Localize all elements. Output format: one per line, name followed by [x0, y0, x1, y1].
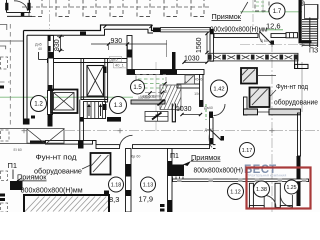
svg-text:1.13: 1.13	[143, 182, 154, 188]
svg-text:800х800х800(Н): 800х800х800(Н)	[194, 167, 244, 174]
svg-text:4565: 4565	[195, 78, 203, 82]
svg-text:В 60: В 60	[261, 39, 268, 43]
svg-text:Дв40: Дв40	[204, 106, 213, 110]
svg-text:П1: П1	[170, 153, 179, 160]
svg-text:1.2: 1.2	[34, 101, 43, 108]
svg-text:900х900х800(Н)мм: 900х900х800(Н)мм	[210, 26, 268, 33]
svg-text:ПЗ: ПЗ	[309, 48, 318, 55]
svg-text:930: 930	[54, 39, 61, 51]
svg-text:8,3: 8,3	[109, 195, 119, 204]
svg-text:1.38: 1.38	[256, 187, 267, 193]
svg-text:П1: П1	[8, 161, 18, 170]
svg-text:40_1: 40_1	[115, 63, 125, 68]
svg-text:оборудование: оборудование	[274, 98, 318, 106]
svg-text:El 60: El 60	[14, 148, 22, 152]
svg-text:1.25: 1.25	[286, 185, 296, 191]
svg-text:Дв5: Дв5	[111, 57, 119, 62]
svg-text:Дв40: Дв40	[205, 128, 214, 132]
svg-text:Дн5: Дн5	[35, 43, 42, 47]
svg-text:1.7: 1.7	[273, 8, 282, 15]
svg-text:1030: 1030	[176, 106, 192, 113]
svg-text:800х800х800(Н)мм: 800х800х800(Н)мм	[21, 185, 83, 194]
svg-text:СТРОИТЕЛЬНАЯ КОМПАНИЯ: СТРОИТЕЛЬНАЯ КОМПАНИЯ	[246, 173, 287, 177]
svg-text:Фун-нт под: Фун-нт под	[36, 152, 78, 161]
svg-text:1.5: 1.5	[133, 85, 142, 91]
svg-text:005 000: 005 000	[138, 96, 150, 100]
svg-text:Фун-нт под: Фун-нт под	[276, 84, 308, 91]
svg-text:1560: 1560	[196, 37, 203, 53]
svg-text:12,6: 12,6	[266, 21, 281, 30]
svg-text:40: 40	[38, 47, 42, 51]
svg-text:17,9: 17,9	[139, 195, 154, 204]
svg-text:1.42: 1.42	[213, 87, 224, 93]
svg-text:Приямок: Приямок	[212, 14, 242, 21]
svg-text:1030: 1030	[184, 55, 200, 62]
svg-text:Дв 60: Дв 60	[131, 154, 140, 158]
svg-text:1.18: 1.18	[111, 182, 122, 188]
svg-text:1.3: 1.3	[114, 102, 123, 109]
svg-text:1.17: 1.17	[242, 148, 253, 154]
svg-text:1.12: 1.12	[230, 189, 241, 195]
